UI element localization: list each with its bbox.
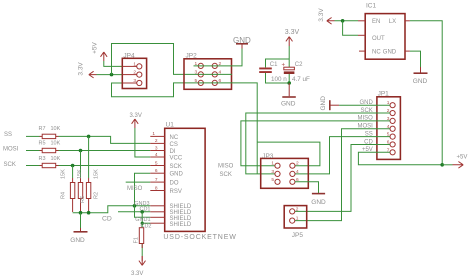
wire R3 to U1 SCK [59, 165, 151, 167]
svg-text:5: 5 [195, 78, 198, 84]
U1 pin CD1 shield [139, 207, 191, 217]
U1 pin 5 SCK [150, 160, 182, 170]
svg-text:DO: DO [170, 181, 179, 187]
wire MISO stub (DO pin) [126, 181, 151, 183]
wire JP3 pin6 to GND [295, 182, 319, 193]
svg-text:1: 1 [152, 131, 155, 137]
svg-text:3: 3 [195, 69, 198, 75]
supply 3.3V arrow (caps) [285, 29, 300, 46]
wire riser into SCK net [256, 142, 258, 174]
junction MOSI/R6 [79, 149, 83, 153]
wire EN [335, 20, 359, 22]
svg-text:JP2: JP2 [186, 52, 198, 59]
svg-text:5: 5 [271, 177, 274, 183]
connector JP3 [261, 153, 309, 188]
svg-text:MISO: MISO [218, 164, 234, 170]
junction caps GND [287, 81, 291, 85]
wire SCK junction down to R4 [72, 166, 74, 179]
ic U1 USD-SOCKETNEW [163, 122, 236, 241]
wire IC1 GND [410, 51, 421, 67]
supply 3.3V down arrow [131, 244, 146, 277]
svg-text:CS: CS [170, 142, 178, 148]
ground GND (IC1) [413, 67, 428, 85]
svg-text:4: 4 [155, 152, 158, 158]
svg-text:JP5: JP5 [292, 232, 304, 239]
svg-text:CD2: CD2 [140, 224, 151, 230]
U1 pin GND1 shield [135, 216, 192, 223]
wire CD to F1 [141, 212, 143, 228]
svg-text:GND: GND [233, 36, 251, 45]
wire 3.3V to caps rail [288, 46, 290, 67]
U1 pin 1 NC [150, 131, 179, 141]
svg-text:2: 2 [133, 70, 136, 76]
svg-text:10K: 10K [51, 156, 61, 162]
wire caps bottom rail [266, 73, 290, 83]
junction CD1 [140, 210, 144, 214]
svg-text:15K: 15K [61, 169, 67, 179]
svg-text:+5V: +5V [92, 41, 99, 53]
svg-text:SHIELD: SHIELD [170, 222, 192, 228]
U1 pin CD2 shield [140, 222, 191, 230]
wire +5V (JP1 pin7) [358, 152, 442, 165]
wire SCK long (JP1 pin2 to JP3 pin3) [246, 113, 390, 174]
svg-text:2: 2 [296, 206, 299, 212]
U1 pin 6 GND [150, 168, 183, 178]
wire MOSI (JP1 pin4 to JP5 pin1) [295, 129, 390, 221]
svg-text:15K: 15K [77, 169, 83, 179]
U1 pin 3 DI [150, 145, 176, 155]
junction rail R6 [79, 211, 83, 215]
svg-text:R2: R2 [94, 192, 100, 199]
svg-text:GND1: GND1 [135, 217, 150, 223]
svg-text:15K: 15K [94, 169, 100, 179]
svg-text:3.3V: 3.3V [285, 29, 300, 36]
wire JP2 row3 through [198, 82, 217, 84]
svg-text:R6: R6 [80, 196, 86, 203]
svg-text:R7: R7 [39, 126, 46, 132]
wire crossover to JP3 pin2 [257, 142, 320, 166]
svg-text:3: 3 [133, 78, 136, 84]
svg-text:6: 6 [155, 168, 158, 174]
svg-text:3: 3 [155, 145, 158, 151]
wire 3.3V to JP4 pin2 [97, 74, 123, 76]
svg-text:4.7 uF: 4.7 uF [292, 76, 310, 83]
supply 3.3V arrow (U1 VCC) [130, 113, 142, 128]
svg-text:JP1: JP1 [378, 91, 390, 98]
ground GND (JP2) [233, 36, 251, 49]
resistor R4 [61, 169, 75, 212]
svg-text:3.3V: 3.3V [77, 62, 84, 76]
wire caps top rail [266, 59, 290, 67]
ground GND (caps) [281, 83, 296, 108]
wire EN to OUT [343, 21, 358, 36]
supply +5V arrow (right) [442, 154, 467, 168]
svg-text:3.3V: 3.3V [318, 8, 325, 22]
junction EN/OUT [341, 19, 345, 23]
ic IC1 regulator [358, 2, 410, 59]
svg-text:3.3V: 3.3V [130, 113, 142, 119]
svg-text:GND: GND [281, 101, 296, 108]
svg-text:CD: CD [102, 216, 112, 223]
svg-text:R4: R4 [61, 192, 67, 199]
svg-text:1: 1 [296, 216, 299, 222]
ground GND (JP1, rotated) [320, 96, 339, 111]
junction +5V [440, 163, 444, 167]
U1 pin 8 RSV [150, 185, 182, 195]
svg-text:MOSI: MOSI [3, 146, 19, 152]
connector JP5 [284, 206, 307, 239]
wire CD [118, 211, 150, 213]
wire SS junction down to R2 [88, 136, 90, 178]
wire SCK to R3 [26, 165, 40, 167]
svg-text:1: 1 [133, 61, 136, 67]
U1 pin 2 CS [150, 138, 178, 148]
svg-text:3: 3 [271, 169, 274, 175]
wire MOSI to R5 [26, 150, 40, 152]
wire 3.3V rail to JP2 pin3 [112, 44, 199, 75]
wire MOSI junction down to R6 [80, 151, 82, 179]
wire CD2 stub [142, 222, 150, 224]
svg-text:100 n: 100 n [271, 76, 287, 83]
junction GND3 [133, 204, 137, 208]
svg-text:LX: LX [389, 19, 396, 25]
svg-text:2: 2 [155, 138, 158, 144]
svg-text:C1: C1 [270, 62, 278, 68]
ground GND (divider) [70, 228, 87, 244]
connector JP4 [122, 52, 146, 88]
svg-text:NC: NC [170, 135, 179, 141]
svg-text:GND: GND [383, 50, 397, 56]
resistor R3 [39, 156, 61, 168]
svg-text:MISO: MISO [127, 186, 143, 192]
junction CD2 [141, 222, 144, 225]
wire F1 to 3.3V [141, 244, 143, 257]
svg-text:3.3V: 3.3V [131, 271, 143, 277]
svg-text:JP4: JP4 [123, 52, 135, 59]
svg-text:GND: GND [320, 96, 327, 111]
capacitor C1 [259, 62, 287, 83]
svg-text:SCK: SCK [4, 162, 16, 168]
resistor R5 [39, 141, 61, 153]
svg-text:USD-SOCKETNEW: USD-SOCKETNEW [163, 234, 236, 241]
svg-text:C2: C2 [295, 62, 303, 68]
svg-text:10K: 10K [51, 126, 61, 132]
wire JP2 pin6 to JP3 riser [217, 83, 257, 142]
svg-text:R3: R3 [39, 156, 46, 162]
U1 pin 4 VCC [150, 152, 183, 162]
wire MISO long (JP1 pin3 to JP3 pin1) [241, 121, 390, 166]
svg-text:SCK: SCK [220, 172, 232, 178]
wire LX to +5V rail [410, 21, 442, 165]
wire JP2 pin2 to GND [217, 49, 242, 66]
capacitor C2 [282, 62, 311, 83]
svg-text:RSV: RSV [170, 189, 182, 195]
connector JP1 [377, 91, 401, 160]
resistor R6 [77, 169, 86, 212]
supply 3.3V arrow (left, JP4) [77, 62, 96, 78]
resistor R7 [39, 126, 61, 138]
svg-text:OUT: OUT [372, 36, 385, 42]
wire JP2 row1 through [194, 65, 218, 67]
svg-text:SS: SS [4, 132, 12, 138]
svg-text:U1: U1 [166, 122, 175, 129]
svg-text:GND: GND [70, 237, 85, 244]
svg-text:F1: F1 [134, 237, 140, 243]
resistor R2 [86, 169, 99, 212]
svg-text:GND: GND [413, 78, 428, 85]
svg-text:DI: DI [170, 149, 176, 155]
wire U1 GND pin riser [135, 173, 151, 217]
svg-text:1: 1 [271, 161, 274, 167]
svg-text:GND: GND [311, 199, 326, 206]
junction 3.3V [110, 73, 114, 77]
U1 pin GND3 shield [134, 201, 192, 210]
svg-text:EN: EN [372, 19, 380, 25]
junction SS/R2 [87, 135, 91, 139]
svg-text:SCK: SCK [170, 164, 182, 170]
wire JP1 GND [339, 104, 390, 106]
svg-text:CD1: CD1 [139, 207, 150, 213]
svg-text:JP3: JP3 [262, 153, 274, 160]
U1 pin 7 DO [150, 177, 179, 187]
svg-text:+5V: +5V [457, 154, 468, 160]
fuse F1 [134, 228, 144, 244]
wire JP2 row2 through [198, 73, 232, 75]
svg-text:GND: GND [170, 172, 184, 178]
wire +5V to JP4 pin1 [104, 61, 123, 66]
supply 3.3V arrow (IC1 EN) [318, 8, 334, 24]
wire JP4 pin3 to JP2 pin5 [112, 83, 199, 97]
svg-text:4: 4 [296, 169, 299, 175]
wire CD (JP1 pin6 to JP5 pin2) [295, 144, 390, 211]
svg-text:NC: NC [372, 50, 381, 56]
svg-text:VCC: VCC [170, 155, 183, 161]
wire SS to R7 [26, 135, 40, 137]
svg-text:8: 8 [155, 185, 158, 191]
wire 3.3V to VCC [135, 128, 150, 157]
junction SCK/R4 [71, 164, 75, 168]
wire rail to ground [80, 213, 82, 228]
wire SS (JP1 pin5 to JP3 pin4) [295, 137, 390, 174]
svg-text:7: 7 [155, 177, 158, 183]
svg-text:IC1: IC1 [366, 2, 377, 9]
junction rail R2 [87, 211, 91, 215]
svg-text:R5: R5 [39, 141, 46, 147]
wire R7 to U1 CS jog [59, 136, 151, 143]
ground GND (JP3) [311, 194, 326, 207]
supply +5V arrow (top left) [92, 41, 108, 61]
wire resistor ground rail [73, 206, 151, 213]
svg-text:2: 2 [296, 161, 299, 167]
svg-text:10K: 10K [51, 141, 61, 147]
connector JP2 [184, 52, 232, 89]
svg-text:5: 5 [155, 160, 158, 166]
wire R5 to U1 DI [59, 150, 151, 152]
